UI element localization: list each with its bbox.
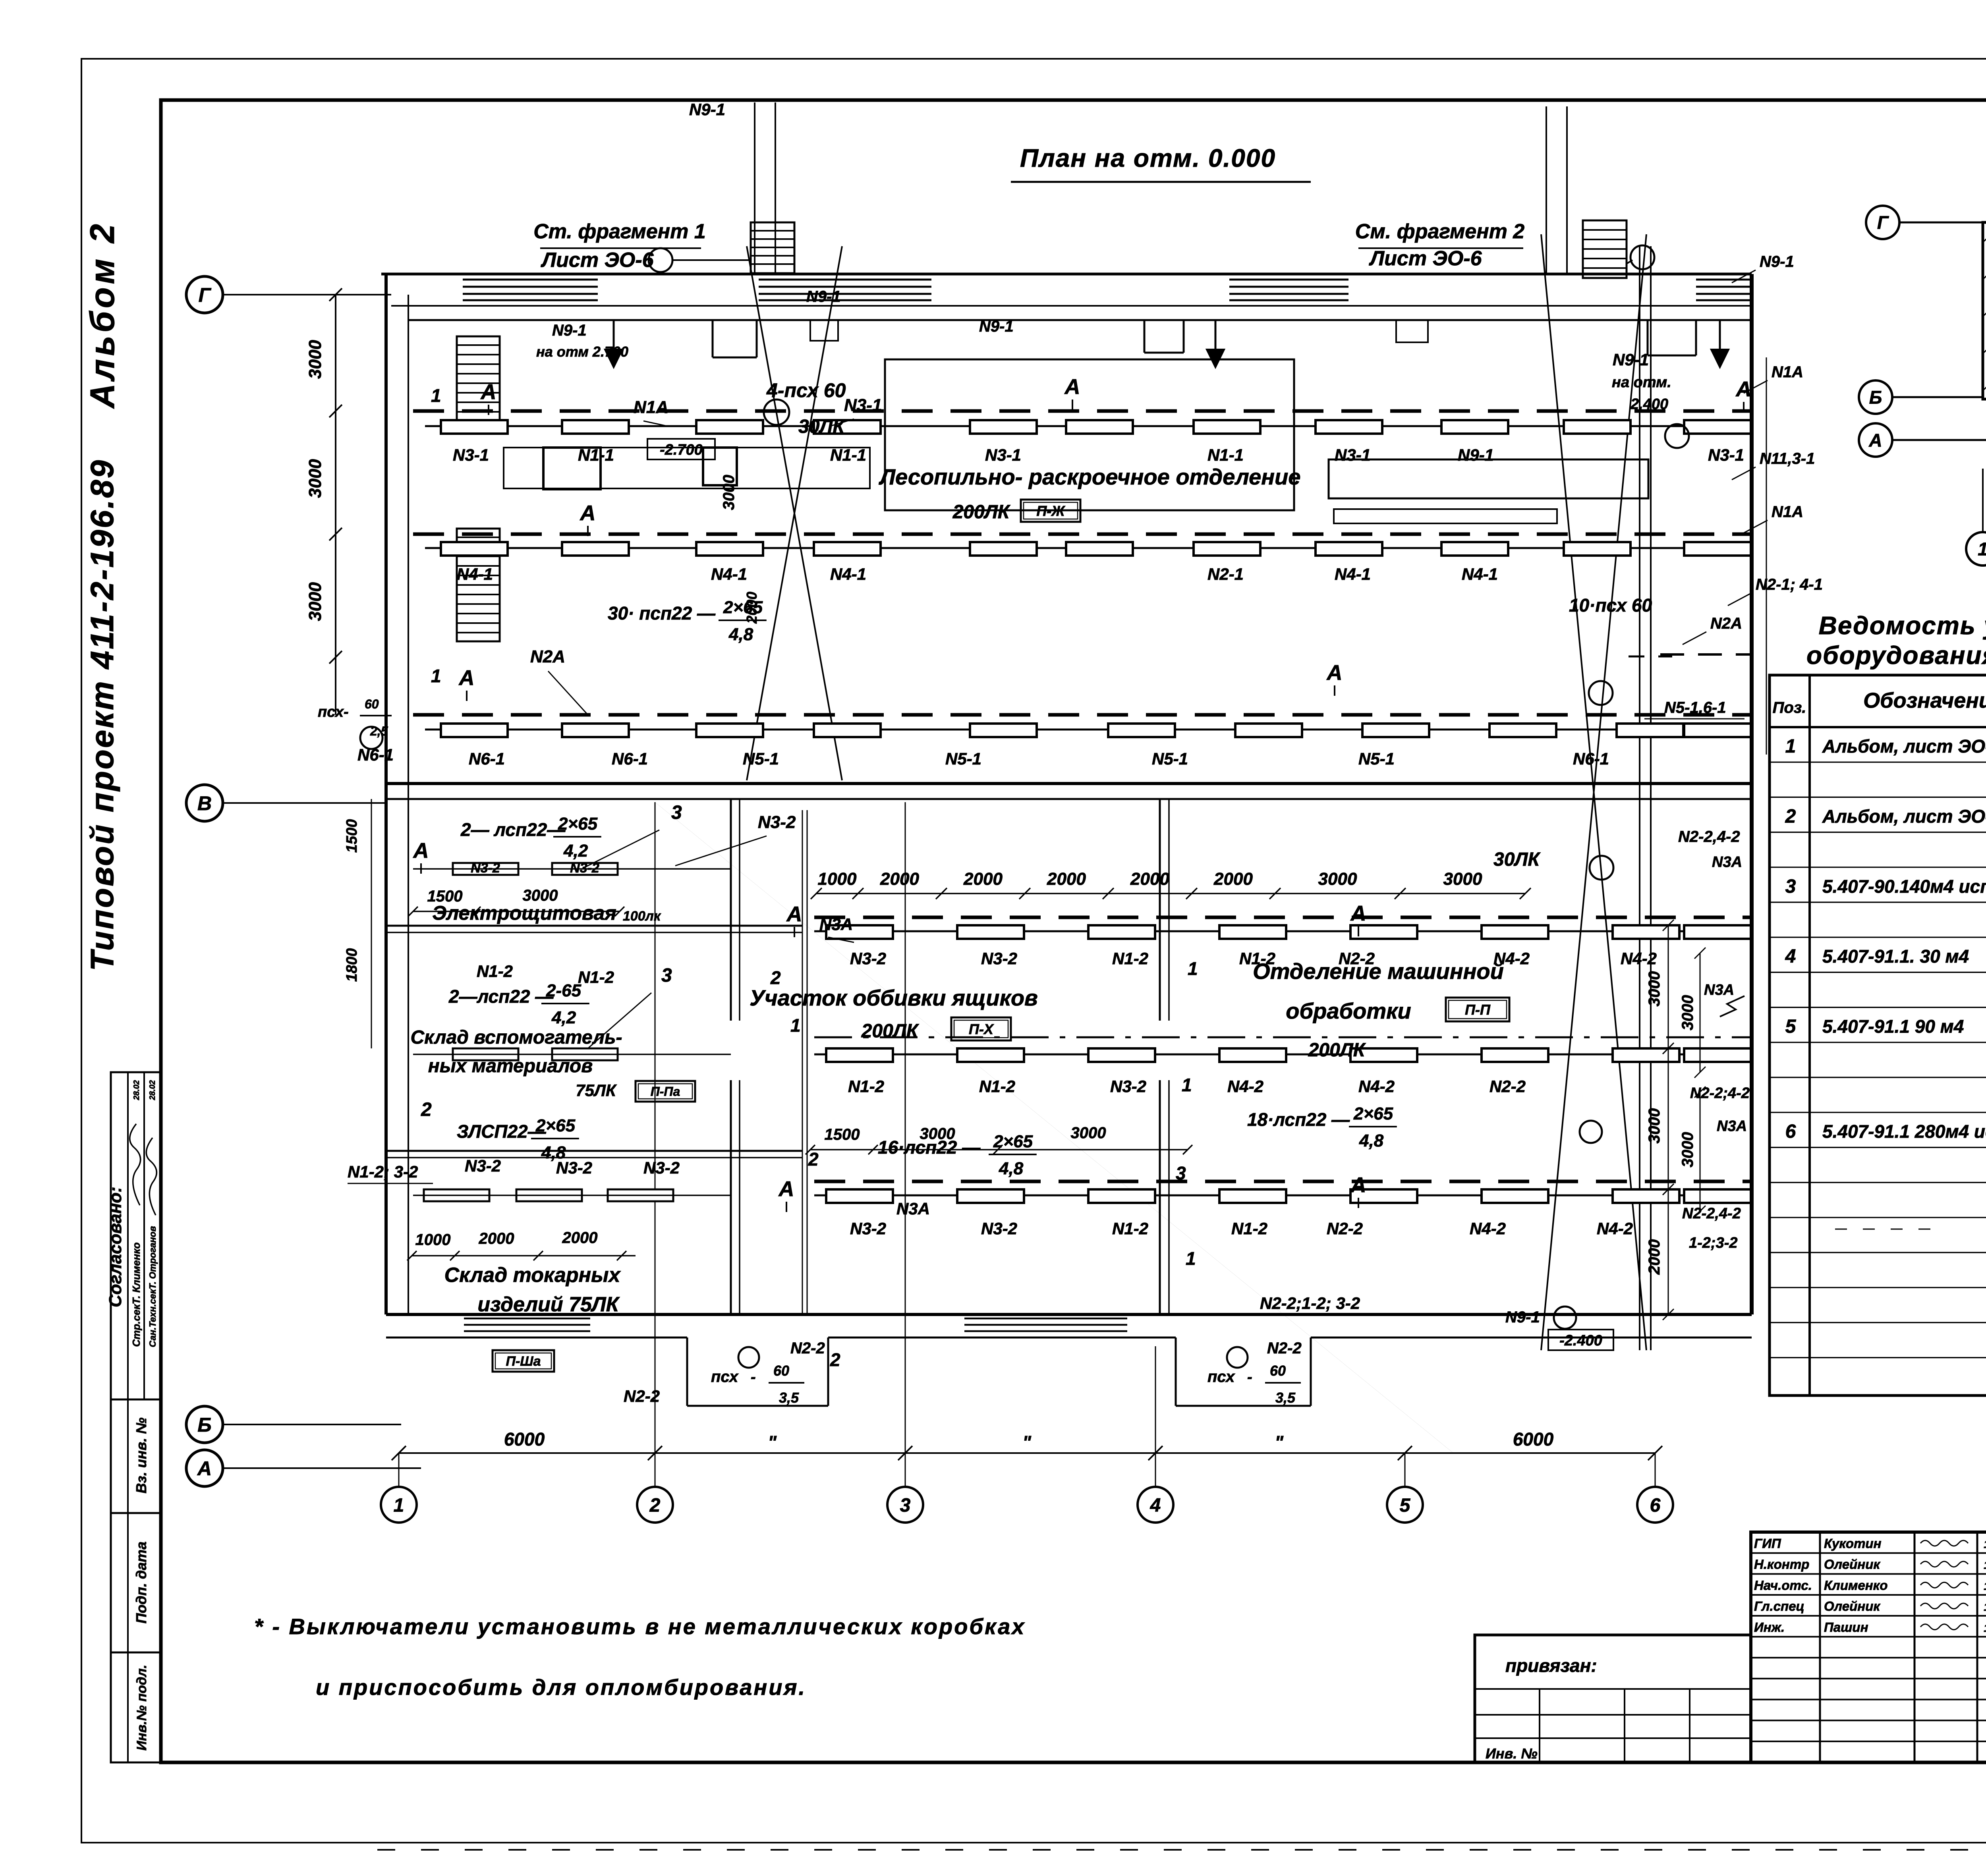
svg-text:N3-1: N3-1 <box>1335 446 1371 464</box>
svg-text:N2-2: N2-2 <box>624 1387 660 1405</box>
svg-text:Согласовано:: Согласовано: <box>106 1187 125 1307</box>
svg-text:ных материалов: ных материалов <box>428 1056 593 1077</box>
svg-text:См. фрагмент 2: См. фрагмент 2 <box>1355 220 1525 243</box>
svg-text:А: А <box>197 1457 212 1480</box>
svg-text:N5-1: N5-1 <box>1358 749 1395 768</box>
svg-text:А: А <box>786 902 802 926</box>
svg-text:N2-2,4-2: N2-2,4-2 <box>1682 1205 1741 1222</box>
svg-text:2— лсп22—: 2— лсп22— <box>460 819 566 840</box>
svg-text:3000: 3000 <box>305 582 325 621</box>
svg-text:3: 3 <box>671 802 682 823</box>
svg-text:Олейник: Олейник <box>1824 1557 1881 1572</box>
svg-text:псх: псх <box>1207 1368 1235 1386</box>
svg-text:-: - <box>751 1369 756 1386</box>
svg-text:Инж.: Инж. <box>1754 1620 1785 1635</box>
svg-text:4: 4 <box>1150 1495 1161 1516</box>
svg-text:2: 2 <box>770 967 781 988</box>
svg-text:N3-2: N3-2 <box>981 1219 1017 1238</box>
svg-text:N6-1: N6-1 <box>612 749 648 768</box>
svg-text:изделий 75ЛК: изделий 75ЛК <box>477 1293 620 1316</box>
svg-text:2000: 2000 <box>1130 869 1169 889</box>
svg-text:П-Ж: П-Ж <box>1036 503 1065 519</box>
svg-text:Пашин: Пашин <box>1824 1620 1868 1635</box>
svg-text:П-Х: П-Х <box>969 1021 994 1037</box>
svg-text:N1-2; 3-2: N1-2; 3-2 <box>348 1162 418 1181</box>
svg-text:3000: 3000 <box>305 340 325 379</box>
svg-text:2×65: 2×65 <box>558 814 598 834</box>
svg-text:2000: 2000 <box>562 1229 598 1247</box>
svg-text:10·псх 60: 10·псх 60 <box>1569 595 1652 616</box>
svg-text:4: 4 <box>1785 946 1796 967</box>
svg-text:4,8: 4,8 <box>728 625 753 644</box>
svg-text:Инв.№ подл.: Инв.№ подл. <box>134 1665 149 1751</box>
svg-text:N6-1: N6-1 <box>469 749 505 768</box>
svg-text:N9-1: N9-1 <box>979 318 1014 335</box>
svg-text:Г: Г <box>199 284 212 306</box>
svg-text:N3-2: N3-2 <box>850 1219 886 1238</box>
svg-text:-2.400: -2.400 <box>1559 1332 1602 1349</box>
svg-text:Г: Г <box>1877 212 1889 233</box>
svg-text:А: А <box>1350 901 1366 925</box>
svg-text:N4-1: N4-1 <box>1335 565 1371 583</box>
svg-text:N2-2;4-2: N2-2;4-2 <box>1690 1085 1750 1102</box>
svg-text:": " <box>768 1432 777 1453</box>
svg-text:N4-2: N4-2 <box>1470 1219 1506 1238</box>
svg-text:Подп. дата: Подп. дата <box>133 1542 149 1623</box>
svg-text:3000: 3000 <box>1646 1108 1663 1144</box>
svg-text:2: 2 <box>808 1149 819 1170</box>
svg-text:N1-2: N1-2 <box>578 968 614 986</box>
svg-text:N3-1: N3-1 <box>985 446 1021 464</box>
svg-text:Лист ЭО-6: Лист ЭО-6 <box>540 249 654 272</box>
svg-text:3: 3 <box>1785 876 1796 897</box>
svg-text:6: 6 <box>1650 1495 1661 1516</box>
svg-text:N1-2: N1-2 <box>1112 949 1148 968</box>
svg-text:Кукотин: Кукотин <box>1824 1536 1882 1551</box>
svg-text:1: 1 <box>1785 736 1796 757</box>
svg-text:N2-2: N2-2 <box>1267 1339 1302 1357</box>
svg-text:3: 3 <box>900 1495 911 1516</box>
svg-text:обработки: обработки <box>1286 998 1411 1023</box>
svg-text:": " <box>1022 1432 1032 1453</box>
svg-text:6: 6 <box>1785 1121 1796 1142</box>
svg-text:N2-2: N2-2 <box>1327 1219 1363 1238</box>
svg-text:и приспособить для оп: и приспособить для опломбирования. <box>316 1675 806 1700</box>
svg-text:привязан:: привязан: <box>1505 1655 1597 1676</box>
svg-text:N3А: N3А <box>896 1199 930 1218</box>
svg-text:N5-1: N5-1 <box>945 749 981 768</box>
svg-text:-2.700: -2.700 <box>660 442 703 458</box>
svg-text:5.407-91.1 90 м4: 5.407-91.1 90 м4 <box>1822 1016 1964 1037</box>
svg-text:1800: 1800 <box>344 948 360 982</box>
svg-text:3: 3 <box>661 965 672 986</box>
svg-text:N3А: N3А <box>1717 1118 1747 1135</box>
svg-text:2000: 2000 <box>1047 869 1086 889</box>
svg-text:3: 3 <box>1176 1163 1186 1183</box>
svg-text:1: 1 <box>431 385 441 406</box>
svg-text:N5-1: N5-1 <box>1152 749 1188 768</box>
svg-text:60: 60 <box>773 1363 789 1379</box>
svg-text:1500: 1500 <box>344 819 360 853</box>
svg-text:100лк: 100лк <box>623 909 661 924</box>
svg-text:12·89: 12·89 <box>1984 1622 1986 1634</box>
svg-text:3000: 3000 <box>305 459 325 498</box>
svg-text:N1А: N1А <box>1772 363 1803 381</box>
svg-text:60: 60 <box>1270 1363 1286 1379</box>
svg-text:N9-1: N9-1 <box>689 100 725 119</box>
svg-text:12·89: 12·89 <box>1984 1538 1986 1550</box>
svg-text:2—лсп22 —: 2—лсп22 — <box>448 986 554 1007</box>
svg-text:Олейник: Олейник <box>1824 1599 1881 1614</box>
svg-text:N3-2: N3-2 <box>1110 1077 1146 1096</box>
svg-text:Клименко: Клименко <box>1824 1578 1888 1592</box>
svg-text:12·89: 12·89 <box>1984 1601 1986 1613</box>
svg-text:1: 1 <box>1182 1075 1192 1095</box>
svg-text:2000: 2000 <box>880 869 919 889</box>
svg-text:П-Ша: П-Ша <box>506 1354 541 1369</box>
svg-text:6000: 6000 <box>1513 1429 1554 1449</box>
svg-text:N2-1: N2-1 <box>1207 565 1244 583</box>
svg-text:N3-2: N3-2 <box>981 949 1017 968</box>
svg-text:П-П: П-П <box>1465 1002 1491 1018</box>
svg-text:30ЛК: 30ЛК <box>1493 849 1541 870</box>
svg-text:2×65: 2×65 <box>723 598 763 617</box>
svg-text:N1-2: N1-2 <box>1231 1219 1267 1238</box>
svg-text:N4-2: N4-2 <box>1597 1219 1633 1238</box>
svg-text:на отм 2.700: на отм 2.700 <box>536 344 628 360</box>
svg-text:200ЛК: 200ЛК <box>952 502 1011 523</box>
svg-text:1: 1 <box>431 666 441 686</box>
svg-text:200ЛК: 200ЛК <box>1308 1040 1366 1061</box>
svg-text:16·лсп22 —: 16·лсп22 — <box>878 1137 981 1158</box>
svg-text:Альбом, лист ЭО-5: Альбом, лист ЭО-5 <box>1822 806 1986 826</box>
svg-text:N4-1: N4-1 <box>1462 565 1498 583</box>
svg-text:1: 1 <box>1188 958 1198 979</box>
svg-text:N1-2: N1-2 <box>848 1077 884 1096</box>
svg-text:Обозначение: Обозначение <box>1863 689 1986 712</box>
svg-text:N2А: N2А <box>530 647 565 666</box>
svg-text:2×65: 2×65 <box>1353 1104 1393 1123</box>
svg-text:N3А: N3А <box>819 915 853 934</box>
svg-text:План на отм. 0.000: План на отм. 0.000 <box>1020 144 1276 172</box>
svg-text:3000: 3000 <box>1443 869 1482 889</box>
svg-text:2: 2 <box>1785 806 1796 827</box>
svg-text:N4-1: N4-1 <box>711 565 747 583</box>
svg-text:5.407-90.140м4 исп. 02: 5.407-90.140м4 исп. 02 <box>1822 876 1986 897</box>
svg-text:3000: 3000 <box>720 475 738 510</box>
svg-text:2000: 2000 <box>1646 1239 1663 1275</box>
svg-text:3000: 3000 <box>1679 1132 1696 1168</box>
svg-text:N5-1: N5-1 <box>743 749 779 768</box>
svg-text:А: А <box>1350 1173 1366 1197</box>
svg-text:Нач.отс.: Нач.отс. <box>1754 1578 1812 1592</box>
svg-text:N1-1: N1-1 <box>830 446 866 464</box>
svg-text:1000: 1000 <box>818 869 857 889</box>
svg-text:Б: Б <box>1869 387 1882 408</box>
svg-text:3000: 3000 <box>1646 971 1663 1007</box>
svg-text:N9-1: N9-1 <box>552 322 587 339</box>
svg-text:N3-2: N3-2 <box>465 1156 501 1175</box>
svg-text:1500: 1500 <box>825 1126 860 1143</box>
svg-text:2: 2 <box>649 1495 661 1516</box>
svg-text:N2-2;1-2; 3-2: N2-2;1-2; 3-2 <box>1260 1294 1360 1312</box>
svg-text:N2-2: N2-2 <box>1489 1077 1526 1096</box>
svg-text:А: А <box>1064 375 1080 399</box>
svg-text:А: А <box>480 380 496 404</box>
svg-text:N3-2: N3-2 <box>643 1158 680 1177</box>
svg-text:30· псп22 —: 30· псп22 — <box>608 603 716 623</box>
svg-text:200ЛК: 200ЛК <box>861 1021 920 1042</box>
svg-text:N4-2: N4-2 <box>1621 949 1657 968</box>
svg-text:N4-1: N4-1 <box>830 565 866 583</box>
svg-text:N9-1: N9-1 <box>1458 446 1494 464</box>
svg-text:Лесопильно- раскроечное отдел: Лесопильно- раскроечное отделение <box>879 464 1301 489</box>
svg-text:1: 1 <box>1186 1248 1196 1269</box>
svg-text:П-Па: П-Па <box>651 1085 680 1099</box>
svg-text:N2-2,4-2: N2-2,4-2 <box>1678 828 1740 845</box>
svg-text:2000: 2000 <box>1213 869 1253 889</box>
svg-text:Участок оббивки ящиков: Участок оббивки ящиков <box>750 985 1038 1010</box>
svg-text:12·89: 12·89 <box>1984 1580 1986 1592</box>
svg-text:Ведомость узлов установки э: Ведомость узлов установки электрического <box>1819 611 1986 640</box>
svg-text:N2-2: N2-2 <box>790 1339 825 1357</box>
svg-text:3000: 3000 <box>1318 869 1357 889</box>
svg-text:N9-1: N9-1 <box>806 288 841 305</box>
svg-text:N1-2: N1-2 <box>979 1077 1015 1096</box>
svg-text:1-2;3-2: 1-2;3-2 <box>1689 1235 1738 1251</box>
svg-text:А: А <box>1868 430 1882 451</box>
svg-text:N2А: N2А <box>1710 615 1742 632</box>
svg-text:N3-1: N3-1 <box>844 396 882 415</box>
svg-text:Альбом, лист ЭО-5: Альбом, лист ЭО-5 <box>1822 736 1986 757</box>
svg-text:5: 5 <box>1785 1016 1797 1037</box>
svg-text:* - Выключатели установить: * - Выключатели установить в не металлич… <box>254 1614 1026 1639</box>
svg-text:N3А: N3А <box>1712 854 1742 870</box>
svg-text:А: А <box>778 1177 794 1201</box>
svg-text:N3-2: N3-2 <box>850 949 886 968</box>
svg-text:28.02: 28.02 <box>132 1080 141 1100</box>
svg-text:1: 1 <box>394 1495 404 1516</box>
svg-text:4,8: 4,8 <box>541 1143 566 1162</box>
svg-text:N4-2: N4-2 <box>1227 1077 1263 1096</box>
svg-text:Отделение машинной: Отделение машинной <box>1253 959 1504 984</box>
svg-text:Ст. фрагмент 1: Ст. фрагмент 1 <box>533 220 706 243</box>
svg-text:28.02: 28.02 <box>148 1080 157 1100</box>
svg-text:Склад вспомогатель-: Склад вспомогатель- <box>410 1027 622 1048</box>
svg-text:1: 1 <box>790 1015 801 1036</box>
svg-text:А: А <box>1326 661 1343 685</box>
svg-text:А: А <box>458 666 475 690</box>
svg-text:N1-2: N1-2 <box>1112 1219 1148 1238</box>
svg-text:2: 2 <box>421 1099 432 1120</box>
svg-text:3000: 3000 <box>1679 995 1696 1031</box>
svg-text:30ЛК: 30ЛК <box>798 416 846 437</box>
svg-text:5.407-91.1 280м4 исп. 01: 5.407-91.1 280м4 исп. 01 <box>1822 1121 1986 1142</box>
svg-text:N2-1; 4-1: N2-1; 4-1 <box>1756 576 1823 593</box>
svg-text:Типовой проект 411-2-196.89: Типовой проект 411-2-196.89 <box>84 459 120 971</box>
svg-text:2×65: 2×65 <box>993 1132 1033 1151</box>
svg-text:60: 60 <box>365 697 379 711</box>
svg-text:Инв. №: Инв. № <box>1486 1745 1538 1762</box>
svg-text:N1-1: N1-1 <box>578 446 614 464</box>
svg-text:N3-1: N3-1 <box>1708 446 1744 464</box>
svg-text:4,2: 4,2 <box>563 841 588 861</box>
svg-text:А: А <box>580 501 596 525</box>
svg-text:N3-2: N3-2 <box>758 813 796 832</box>
svg-text:2×65: 2×65 <box>535 1116 576 1135</box>
svg-text:Н.контр: Н.контр <box>1754 1557 1809 1572</box>
svg-text:А: А <box>1735 377 1752 401</box>
svg-text:2000: 2000 <box>479 1230 514 1247</box>
svg-text:5.407-91.1. 30 м4: 5.407-91.1. 30 м4 <box>1822 946 1969 967</box>
svg-text:N5-1,6-1: N5-1,6-1 <box>1664 699 1726 716</box>
svg-text:N9-1: N9-1 <box>1760 253 1794 270</box>
svg-text:Стр.секТ. Клименко: Стр.секТ. Клименко <box>130 1242 142 1347</box>
svg-text:4,8: 4,8 <box>1359 1131 1384 1150</box>
svg-text:В: В <box>197 792 212 814</box>
svg-text:N1-1: N1-1 <box>1207 446 1244 464</box>
svg-text:N1А: N1А <box>1772 503 1803 521</box>
svg-text:N3А: N3А <box>1704 982 1734 998</box>
svg-text:-: - <box>1247 1369 1252 1386</box>
svg-text:12·89: 12·89 <box>1984 1559 1986 1571</box>
svg-text:Электрощитовая: Электрощитовая <box>432 902 616 924</box>
svg-text:3,5: 3,5 <box>779 1390 799 1406</box>
svg-text:N11,3-1: N11,3-1 <box>1760 450 1815 467</box>
svg-text:2: 2 <box>830 1349 840 1370</box>
svg-text:N3-1: N3-1 <box>453 446 489 464</box>
svg-text:Лист ЭО-6: Лист ЭО-6 <box>1368 247 1482 270</box>
svg-text:N9-1: N9-1 <box>1613 350 1649 369</box>
svg-text:Склад токарных: Склад токарных <box>444 1264 621 1287</box>
svg-text:N6-1: N6-1 <box>1573 749 1609 768</box>
svg-text:3,5: 3,5 <box>1275 1390 1296 1406</box>
svg-text:N1А: N1А <box>634 398 668 417</box>
svg-text:1: 1 <box>1978 539 1986 560</box>
svg-text:оборудования на планах расп: оборудования на планах расположения <box>1806 641 1986 670</box>
svg-text:Б: Б <box>197 1414 211 1436</box>
svg-text:псх-: псх- <box>318 704 349 720</box>
svg-text:N4-2: N4-2 <box>1358 1077 1395 1096</box>
svg-text:1000: 1000 <box>415 1231 451 1249</box>
svg-text:3000: 3000 <box>1071 1124 1106 1142</box>
svg-text:Гл.спец: Гл.спец <box>1754 1599 1804 1614</box>
svg-text:N3-2: N3-2 <box>471 861 500 876</box>
svg-text:4-псх 60: 4-псх 60 <box>766 379 846 401</box>
svg-text:Сан.Техн.секТ. Отроганов: Сан.Техн.секТ. Отроганов <box>147 1226 158 1347</box>
svg-text:": " <box>1275 1432 1284 1453</box>
svg-text:А: А <box>413 839 429 863</box>
svg-text:N9-1: N9-1 <box>1505 1309 1540 1326</box>
svg-text:Вз. инв. №: Вз. инв. № <box>133 1417 149 1493</box>
svg-text:Альбом 2: Альбом 2 <box>83 221 122 409</box>
svg-text:18·лсп22 —: 18·лсп22 — <box>1247 1109 1350 1130</box>
svg-text:2000: 2000 <box>963 869 1003 889</box>
svg-text:ГИП: ГИП <box>1754 1536 1781 1551</box>
svg-text:5: 5 <box>1400 1495 1411 1516</box>
svg-text:4,8: 4,8 <box>999 1159 1024 1178</box>
svg-text:6000: 6000 <box>504 1429 545 1449</box>
svg-text:4,2: 4,2 <box>551 1008 576 1027</box>
svg-text:N1-2: N1-2 <box>477 962 513 980</box>
svg-text:Поз.: Поз. <box>1773 699 1806 716</box>
svg-text:2-65: 2-65 <box>546 981 582 1000</box>
svg-text:псх: псх <box>711 1368 739 1386</box>
svg-text:N4-1: N4-1 <box>457 565 493 583</box>
svg-text:75ЛК: 75ЛК <box>576 1081 617 1100</box>
svg-text:2.400: 2.400 <box>1630 396 1668 413</box>
svg-text:на отм.: на отм. <box>1612 374 1671 391</box>
